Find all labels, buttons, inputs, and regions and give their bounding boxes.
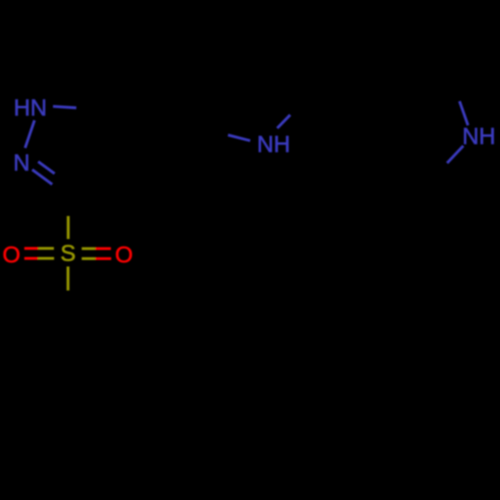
bond S=O right, lower line, O half [95,257,111,260]
bond N1-C7a (half near N1) [53,106,76,107]
svg-text:N: N [13,149,30,175]
bond C3-S (half near S) [67,216,70,239]
svg-text:HN: HN [14,94,47,120]
svg-text:S: S [60,240,75,266]
bond S=O right, lower line, S half [82,257,96,260]
svg-text:NH: NH [462,123,495,149]
bond C-N piperidine top (half near N) [460,101,469,125]
bond S=O left, lower line, S half [38,257,54,260]
svg-text:O: O [3,242,21,268]
bond S=O left, upper line, S half [38,247,54,250]
bond N2=C3 main line (half near N2) [32,170,52,185]
svg-text:O: O [115,242,133,268]
bond S=O left, lower line, O half [24,257,38,260]
bond C5-N amine (half near N) [228,135,250,141]
bond S=O left, upper line, O half [24,247,38,250]
bond N piperidine-C bottom (half near N) [447,146,463,163]
bond N2=C3 inner double line [38,162,54,174]
bond N1-N2 [25,120,34,148]
bond N amine-CH2 (half near N) [277,115,290,128]
svg-text:NH: NH [257,131,290,157]
bond S=O right, upper line, O half [95,247,111,250]
bond S=O right, upper line, S half [82,247,96,250]
bond S-CH3 (half near S) [67,267,70,291]
